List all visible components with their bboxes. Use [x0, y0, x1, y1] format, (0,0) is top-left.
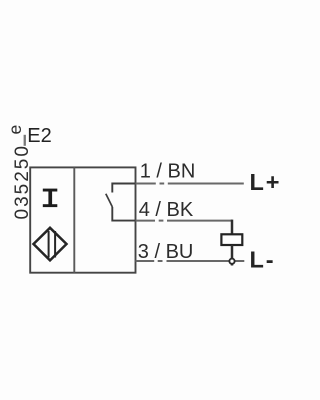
svg-text:e: e	[5, 125, 25, 135]
svg-text:4 / BK: 4 / BK	[139, 199, 194, 221]
proximity sensor diamond symbol	[34, 228, 67, 261]
junction node on L- wire	[229, 259, 234, 264]
sensor body divider	[73, 167, 75, 272]
switch contact S1	[106, 184, 136, 221]
svg-text:E2: E2	[27, 125, 51, 147]
load resistor	[221, 234, 242, 245]
svg-text:L+: L+	[250, 169, 282, 195]
E2 index tick	[24, 135, 26, 146]
wire 4/BK to load	[136, 220, 233, 222]
sensor body outline U1	[30, 167, 135, 272]
svg-text:1 / BN: 1 / BN	[140, 161, 196, 183]
wire drop from 4/BK corner to load	[231, 220, 234, 235]
wire 3/BU to L-	[136, 260, 245, 262]
wire load to junction	[231, 245, 234, 266]
inductive symbol I	[43, 189, 58, 207]
svg-text:3 / BU: 3 / BU	[138, 241, 194, 263]
svg-text:L-: L-	[250, 247, 276, 273]
wire 1/BN to L+	[136, 183, 244, 185]
